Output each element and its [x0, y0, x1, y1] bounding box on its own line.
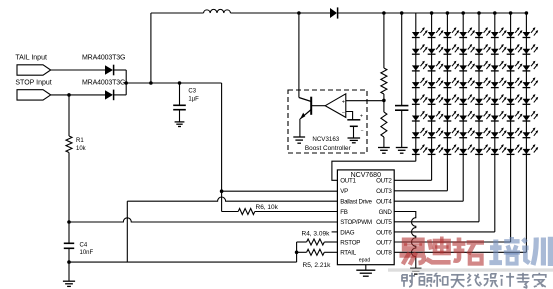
- svg-text:OUT4: OUT4: [376, 199, 392, 206]
- inductor L1: [204, 9, 231, 13]
- wire ground return horizontal: [69, 261, 297, 263]
- wire LED column 4: [462, 13, 464, 201]
- node TAIL input tag: [17, 65, 51, 75]
- wire LED column 7: [510, 13, 512, 242]
- watermark small char 6: [484, 274, 498, 287]
- LED row 5 col 4: [459, 99, 467, 104]
- LED row 6 col 7: [507, 116, 515, 121]
- junction LED column 6 on rail: [493, 11, 497, 15]
- junction LED column 8 on rail: [525, 11, 529, 15]
- svg-text:OUT5: OUT5: [376, 219, 392, 226]
- LED row 2 col 2: [428, 49, 436, 54]
- svg-text:OUT7: OUT7: [376, 239, 392, 246]
- LED row 3 col 1: [412, 65, 420, 70]
- watermark char xun: [522, 239, 529, 263]
- wire boost switch collector: [298, 13, 300, 98]
- LED row 4 col 1: [412, 82, 420, 87]
- watermark char pei: [489, 240, 502, 264]
- wire LED column 1: [415, 13, 417, 161]
- svg-text:C3: C3: [188, 89, 196, 95]
- LED row 5 col 2: [428, 99, 436, 104]
- LED row 4 col 3: [444, 82, 452, 87]
- junction divider midpoint: [382, 99, 386, 103]
- wire GND pin with hops: [394, 212, 416, 269]
- wire STOP to D2: [51, 94, 105, 96]
- wire VP to IC: [222, 190, 338, 192]
- LED row 6 col 2: [428, 116, 436, 121]
- svg-text:+: +: [342, 99, 345, 105]
- svg-text:TAIL Input: TAIL Input: [15, 55, 47, 62]
- svg-text:R5, 2.21k: R5, 2.21k: [303, 262, 332, 269]
- svg-text:epad: epad: [359, 257, 371, 263]
- svg-text:Boost Controller: Boost Controller: [305, 145, 352, 152]
- resistor R5: [324, 251, 337, 253]
- LED row 7 col 2: [428, 132, 436, 137]
- svg-text:OUT1: OUT1: [340, 178, 356, 185]
- wire LED column 6: [494, 13, 496, 232]
- LED row 3 col 6: [491, 65, 499, 70]
- svg-text:Ballast Drive: Ballast Drive: [340, 199, 372, 206]
- svg-text:STOP Input: STOP Input: [15, 79, 51, 86]
- svg-text:RTAIL: RTAIL: [340, 250, 357, 257]
- LED row 6 col 6: [491, 116, 499, 121]
- resistor divider upper: [383, 13, 385, 68]
- boost controller U2 NCV3163 dashed box: [288, 90, 367, 153]
- diode D3 output rectifier: [330, 8, 337, 18]
- svg-text:R1: R1: [76, 138, 84, 144]
- junction boost collector on rail: [297, 11, 301, 15]
- LED row 7 col 4: [459, 132, 467, 137]
- ground under output cap: [396, 147, 408, 149]
- svg-text:−: −: [361, 129, 364, 135]
- capacitor C4: [68, 222, 70, 243]
- capacitor output filter: [401, 13, 403, 105]
- LED row 2 col 6: [491, 49, 499, 54]
- wire TAIL to D1: [51, 69, 105, 71]
- svg-text:STOP/PWM: STOP/PWM: [340, 219, 372, 226]
- ground under C4: [68, 262, 70, 281]
- LED row 8 col 3: [444, 149, 452, 154]
- LED row 8 col 6: [491, 149, 499, 154]
- resistor R1: [68, 95, 70, 136]
- junction LED column 7 on rail: [509, 11, 513, 15]
- LED row 6 col 1: [412, 116, 420, 121]
- junction R4/R5 node: [295, 251, 299, 255]
- LED row 6 col 3: [444, 116, 452, 121]
- wire top rail left segment: [151, 12, 204, 14]
- wire ballast drive vertical: [126, 201, 128, 262]
- LED row 1 col 1: [412, 32, 420, 37]
- LED row 5 col 8: [523, 99, 531, 104]
- LED row 1 col 6: [491, 32, 499, 37]
- wire comparator minus input: [346, 112, 353, 120]
- wire D2 cathode: [114, 94, 127, 96]
- junction C3 tap: [178, 81, 182, 85]
- LED row 4 col 7: [507, 82, 515, 87]
- junction R1/C4/STOP-PWM node: [67, 220, 71, 224]
- junction LED column 3 on rail: [446, 11, 450, 15]
- junction VP node: [220, 189, 224, 193]
- LED row 5 col 1: [412, 99, 420, 104]
- junction output cap top on rail: [400, 11, 404, 15]
- wire OUT1 to LED column 1: [332, 161, 416, 180]
- junction C4 bottom node: [67, 260, 71, 264]
- wire OUT4 to column 4: [394, 200, 463, 202]
- svg-text:10nF: 10nF: [80, 250, 94, 256]
- svg-text:R6, 10k: R6, 10k: [256, 204, 279, 211]
- svg-text:RSTOP: RSTOP: [340, 239, 360, 246]
- wire supply node horizontal: [126, 82, 221, 84]
- LED row 4 col 2: [428, 82, 436, 87]
- ground under C3: [175, 121, 185, 123]
- LED row 5 col 5: [475, 99, 483, 104]
- junction LED column 5 on rail: [477, 11, 481, 15]
- LED row 8 col 7: [507, 149, 515, 154]
- svg-text:OUT3: OUT3: [376, 188, 392, 195]
- LED row 6 col 5: [475, 116, 483, 121]
- ground GND pin: [410, 267, 421, 269]
- LED row 2 col 4: [459, 49, 467, 54]
- wire ballast drive with hop: [127, 197, 337, 201]
- svg-text:FB: FB: [340, 209, 348, 216]
- LED row 7 col 6: [491, 132, 499, 137]
- node STOP input tag: [17, 90, 51, 100]
- junction LED column 2 on rail: [430, 11, 434, 15]
- watermark char di: [426, 240, 450, 263]
- LED row 5 col 3: [444, 99, 452, 104]
- ground under Q1: [293, 136, 305, 138]
- svg-text:10k: 10k: [76, 146, 87, 152]
- wire OUT5 to column 5: [394, 221, 479, 223]
- LED row 7 col 7: [507, 132, 515, 137]
- resistor R4: [324, 241, 337, 243]
- LED row 8 col 2: [428, 149, 436, 154]
- svg-text:−: −: [342, 110, 345, 116]
- watermark small char 2: [418, 274, 432, 287]
- LED row 4 col 5: [475, 82, 483, 87]
- LED row 5 col 7: [507, 99, 515, 104]
- wire FB branch vertical: [221, 191, 223, 211]
- LED row 7 col 5: [475, 132, 483, 137]
- LED row 1 col 3: [444, 32, 452, 37]
- wire OUT2 to column 2: [394, 179, 431, 181]
- LED row 2 col 1: [412, 49, 420, 54]
- diode D1 MRA4003T3G: [105, 65, 113, 74]
- wire epad to ground: [365, 265, 367, 270]
- wire diode-OR tie vertical: [125, 70, 127, 95]
- LED row 6 col 4: [459, 116, 467, 121]
- LED row 8 col 5: [475, 149, 483, 154]
- resistor R6: [222, 211, 239, 213]
- wire riser to top rail: [150, 13, 152, 83]
- LED row 3 col 8: [523, 65, 531, 70]
- watermark small char 7: [500, 273, 514, 287]
- watermark char yi: [405, 240, 423, 249]
- LED row 1 col 5: [475, 32, 483, 37]
- wire comparator plus input to divider: [346, 100, 384, 102]
- watermark small char 1: [402, 273, 415, 287]
- junction diode-OR node: [124, 81, 128, 85]
- LED row 2 col 5: [475, 49, 483, 54]
- LED row 6 col 8: [523, 116, 531, 121]
- watermark char tuo: [452, 238, 465, 261]
- svg-text:GND: GND: [379, 209, 393, 216]
- svg-text:C4: C4: [80, 242, 88, 248]
- LED row 7 col 1: [412, 132, 420, 137]
- svg-text:MRA4003T3G: MRA4003T3G: [82, 79, 125, 86]
- wire VP feed vertical: [221, 83, 223, 191]
- wire LED column 8: [525, 13, 527, 252]
- wire DIAG stub: [332, 231, 338, 233]
- LED row 3 col 5: [475, 65, 483, 70]
- wire top rail right segment: [231, 12, 331, 14]
- LED row 4 col 4: [459, 82, 467, 87]
- transistor Q1 internal switch: [299, 98, 311, 102]
- wire STOP/PWM with hop: [69, 218, 337, 222]
- battery reference Vref: [347, 119, 360, 121]
- diode D2 MRA4003T3G: [105, 90, 113, 99]
- LED row 3 col 7: [507, 65, 515, 70]
- op-amp U1 NCV7680 body: [337, 170, 394, 265]
- junction LED column 4 on rail: [461, 11, 465, 15]
- wire D1 cathode: [114, 69, 127, 71]
- wire OUT7 to column 7: [394, 241, 510, 243]
- resistor divider lower: [383, 100, 385, 112]
- LED row 2 col 7: [507, 49, 515, 54]
- svg-text:MRA4003T3G: MRA4003T3G: [82, 55, 125, 62]
- svg-text:DIAG: DIAG: [340, 229, 355, 236]
- svg-text:R4, 3.09k: R4, 3.09k: [302, 231, 331, 238]
- LED row 1 col 4: [459, 32, 467, 37]
- junction boost input riser: [149, 81, 153, 85]
- ground under divider: [378, 147, 390, 149]
- watermark small char 5: [467, 274, 481, 286]
- wire OUT8 to column 8: [394, 251, 526, 253]
- LED row 1 col 7: [507, 32, 515, 37]
- wire top rail to LED bus: [338, 12, 527, 14]
- svg-text:+: +: [360, 113, 363, 119]
- LED row 1 col 2: [428, 32, 436, 37]
- LED row 8 col 8: [523, 149, 531, 154]
- LED row 8 col 1: [412, 149, 420, 154]
- LED row 8 col 4: [459, 149, 467, 154]
- watermark band: [388, 268, 553, 271]
- watermark small char 3: [434, 273, 448, 287]
- watermark small char 9: [533, 273, 546, 287]
- capacitor C3: [179, 83, 181, 105]
- LED row 7 col 3: [444, 132, 452, 137]
- junction divider top on rail: [382, 11, 386, 15]
- LED row 1 col 8: [523, 32, 531, 37]
- LED row 3 col 4: [459, 65, 467, 70]
- op-amp U2a error comparator: [325, 94, 346, 118]
- LED row 2 col 3: [444, 49, 452, 54]
- watermark small char 8: [517, 273, 530, 288]
- LED row 4 col 8: [523, 82, 531, 87]
- ground epad: [356, 269, 375, 271]
- wire LED column 5: [478, 13, 480, 222]
- junction R1 tap on STOP line: [67, 93, 71, 97]
- svg-text:OUT2: OUT2: [376, 178, 392, 185]
- LED row 3 col 3: [444, 65, 452, 70]
- wire OUT6 to column 6: [394, 231, 495, 233]
- wire LED column 2: [431, 13, 433, 180]
- LED row 5 col 6: [491, 99, 499, 104]
- LED row 4 col 6: [491, 82, 499, 87]
- ground under Vref: [348, 137, 361, 139]
- LED row 7 col 8: [523, 132, 531, 137]
- svg-text:VP: VP: [340, 188, 348, 195]
- LED row 3 col 2: [428, 65, 436, 70]
- svg-text:NCV3163: NCV3163: [312, 136, 339, 143]
- svg-text:OUT6: OUT6: [376, 229, 392, 236]
- wire LED column 3: [446, 13, 448, 191]
- wire OUT3 to column 3: [394, 190, 447, 192]
- LED row 2 col 8: [523, 49, 531, 54]
- svg-text:OUT8: OUT8: [376, 250, 392, 257]
- svg-text:1µF: 1µF: [188, 97, 199, 103]
- watermark small char 4: [451, 275, 465, 288]
